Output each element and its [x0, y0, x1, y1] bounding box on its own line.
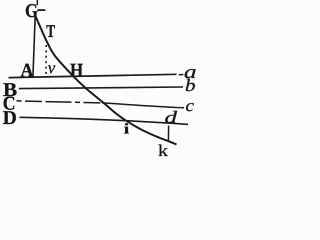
svg-text:A: A	[21, 61, 34, 82]
line C-c solid part	[102, 103, 184, 108]
curve G-T-H-i-k	[35, 16, 176, 145]
svg-text:T: T	[46, 21, 55, 41]
line B-b	[19, 87, 183, 89]
line D-d	[20, 117, 189, 124]
line G-A (vertical)	[33, 16, 35, 78]
line C-c dashed part	[17, 101, 103, 103]
dash before a	[179, 74, 184, 76]
svg-text:c: c	[186, 96, 195, 115]
svg-text:H: H	[70, 60, 83, 81]
tick above G	[36, 0, 38, 5]
paper background	[0, 0, 200, 168]
svg-text:k: k	[158, 141, 169, 160]
svg-text:b: b	[185, 75, 196, 95]
svg-text:d: d	[165, 107, 178, 127]
dotted line T-v (vertical dotted)	[45, 45, 47, 77]
svg-text:i: i	[124, 121, 130, 137]
line A-a	[9, 74, 177, 77]
svg-text:v: v	[48, 58, 56, 77]
svg-text:D: D	[3, 108, 17, 129]
dash right of G	[38, 9, 46, 11]
vertical line d-k	[167, 126, 169, 142]
